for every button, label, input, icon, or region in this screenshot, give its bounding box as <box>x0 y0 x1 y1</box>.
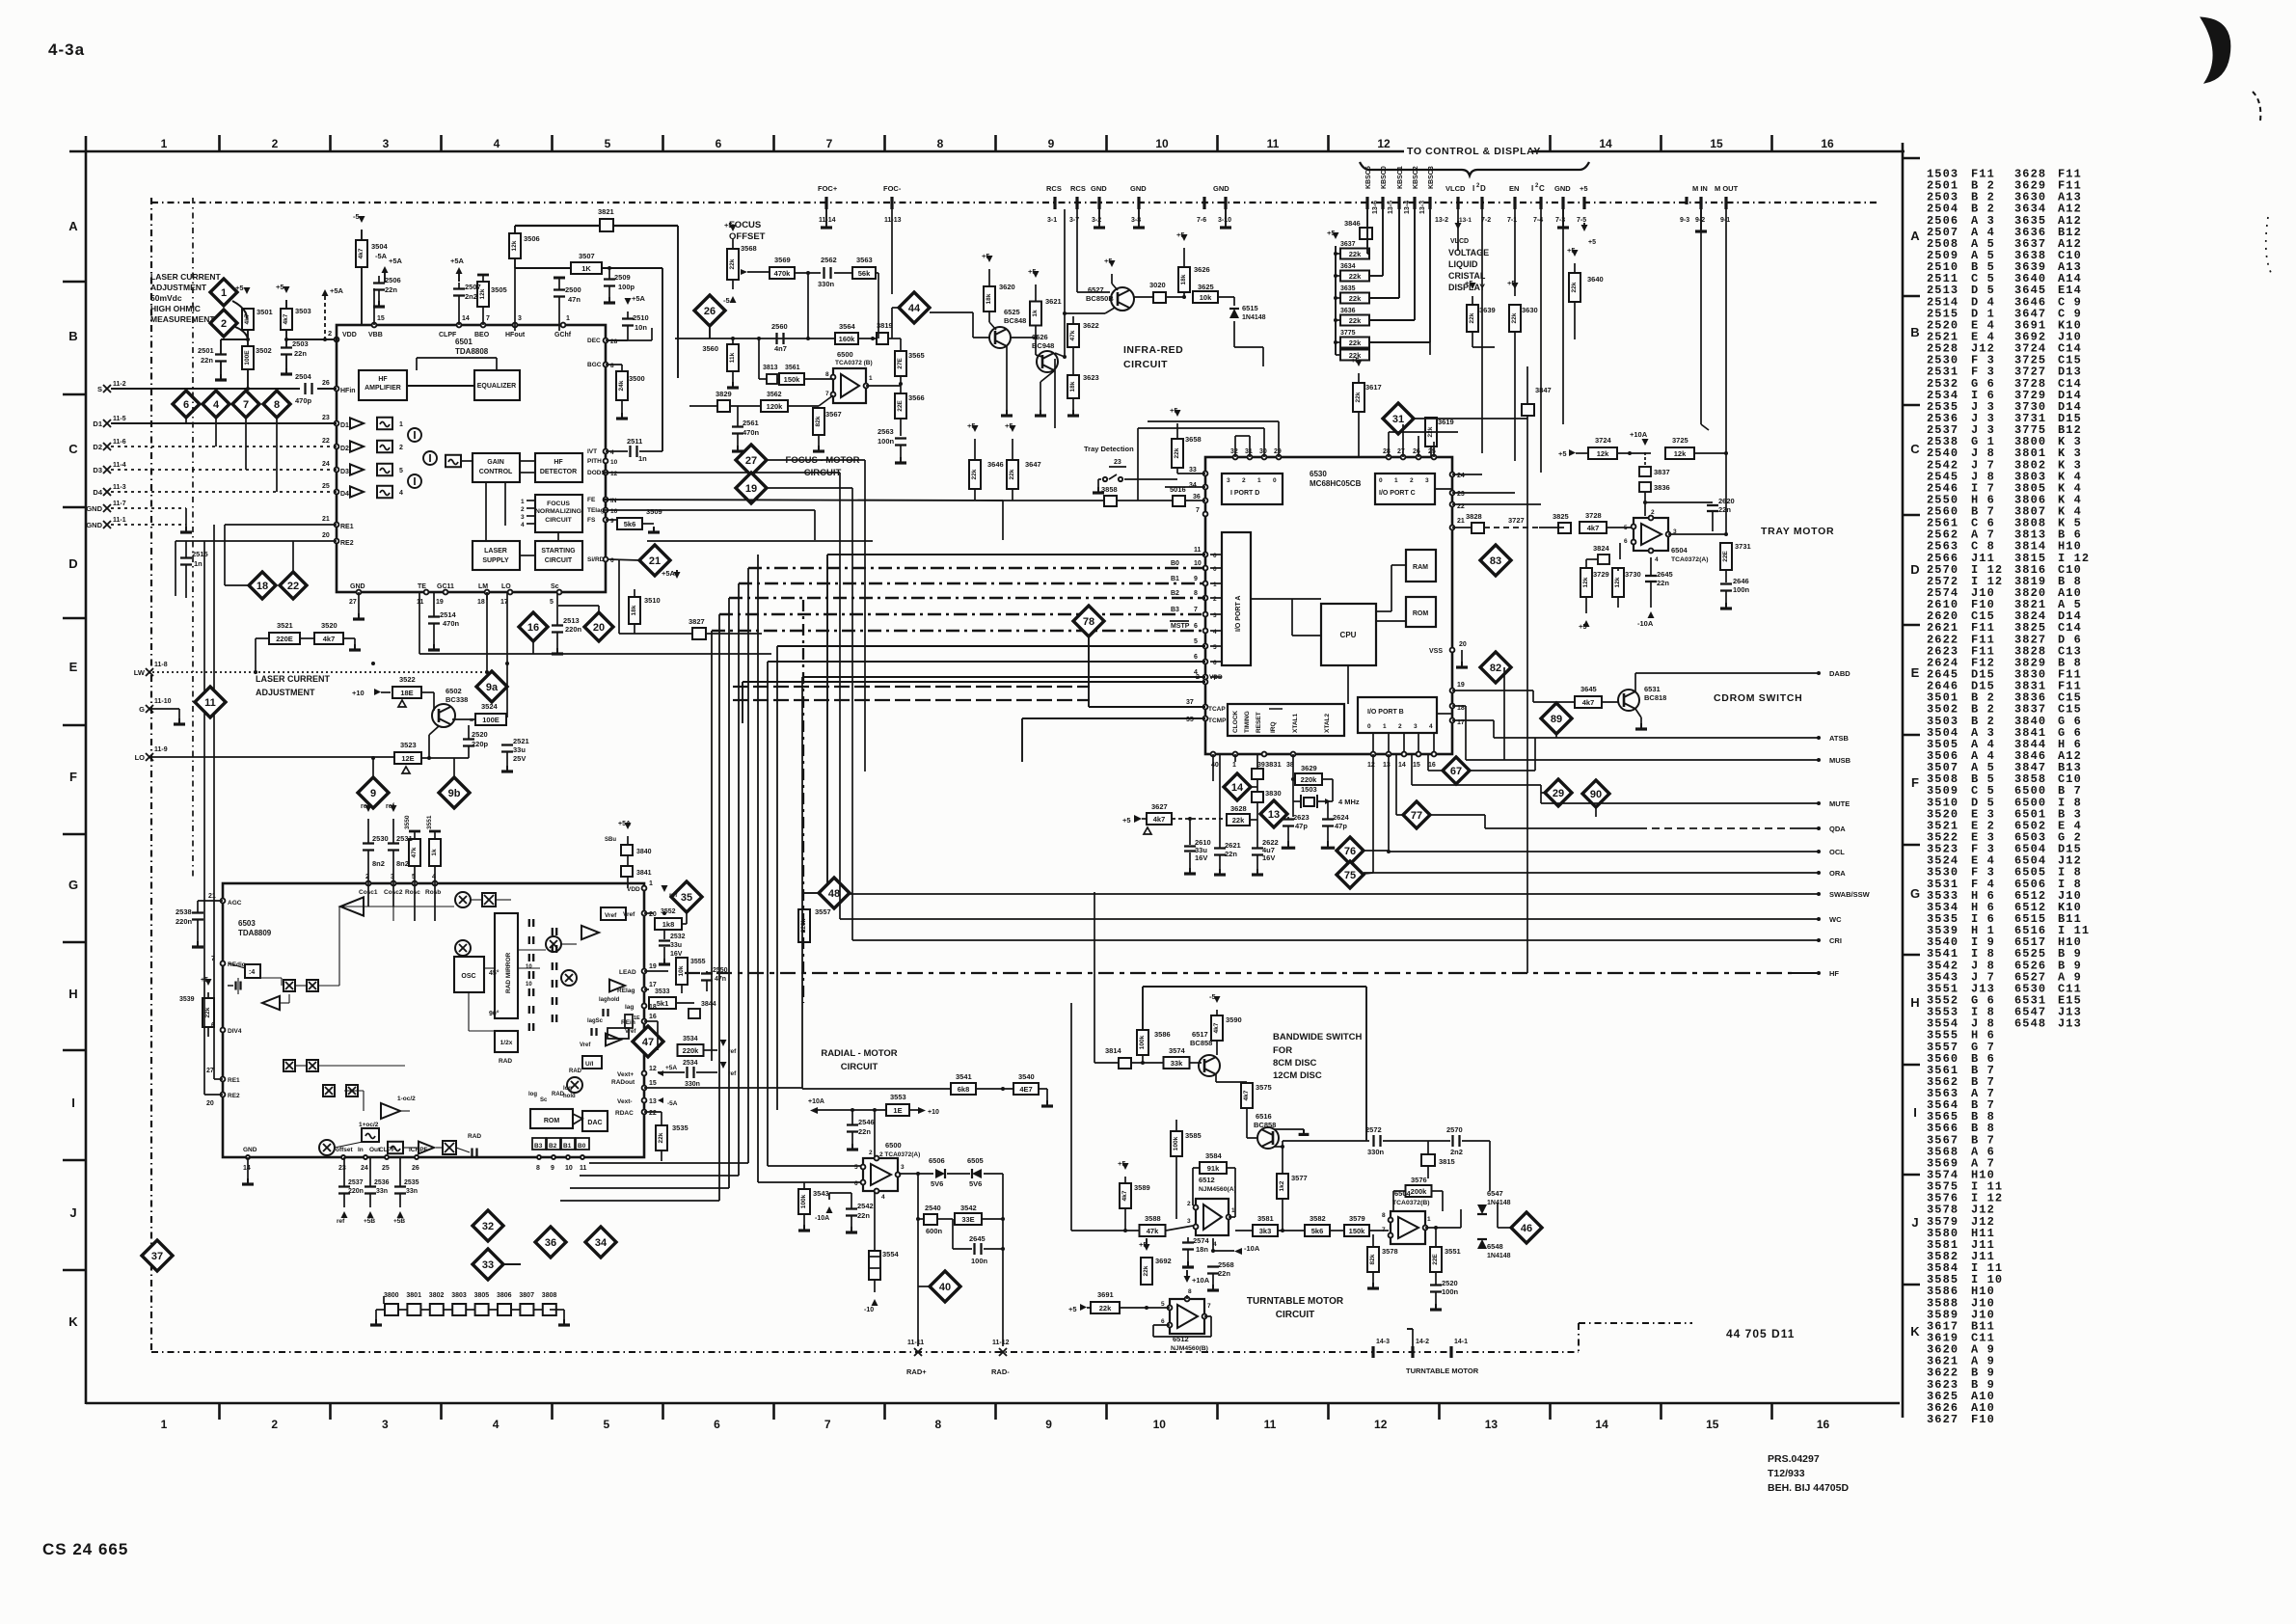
wire Vref to 3552 <box>644 912 654 914</box>
svg-text:31: 31 <box>1392 414 1404 425</box>
resistor ladder 3637/3634/3635/3636/3775 22k <box>1335 246 1337 355</box>
svg-text:6504: 6504 <box>1394 1189 1412 1198</box>
svg-text:22E: 22E <box>897 400 904 412</box>
svg-text:14: 14 <box>1599 137 1612 150</box>
svg-text:3807: 3807 <box>519 1292 534 1299</box>
triangle amp left <box>262 996 280 1010</box>
svg-text:ADJUSTMENT: ADJUSTMENT <box>150 283 207 292</box>
svg-text:100E: 100E <box>244 350 251 365</box>
svg-text:TCA0372 (B): TCA0372 (B) <box>835 360 873 366</box>
svg-text:2645: 2645 <box>1657 570 1673 579</box>
+5 arrow 3658 <box>1175 410 1181 417</box>
wire 6517 emitter <box>1215 1073 1217 1082</box>
svg-text:470n: 470n <box>443 619 460 628</box>
svg-text:GND: GND <box>1130 184 1147 193</box>
crystal 1503 <box>1304 798 1314 806</box>
resistor 3562 120k <box>761 400 788 412</box>
I PORT D box <box>1222 474 1283 504</box>
svg-text:2510: 2510 <box>633 313 649 322</box>
svg-text:20: 20 <box>649 911 657 918</box>
svg-text:33u: 33u <box>670 942 682 949</box>
svg-text:2501: 2501 <box>198 346 214 355</box>
dashed border x200 <box>192 198 194 880</box>
capacitor 2542 22n <box>846 1207 857 1209</box>
svg-text:VDD: VDD <box>627 886 640 893</box>
diode 6505 5V6 <box>972 1169 982 1178</box>
resistor 3542 33E <box>955 1213 982 1225</box>
svg-text:B0: B0 <box>578 1143 586 1150</box>
svg-text:G: G <box>1910 886 1920 901</box>
B3 B2 B1 B0 boxed labels <box>532 1138 546 1150</box>
svg-text:100k: 100k <box>1139 1035 1146 1049</box>
resistor 3585 100k <box>1171 1131 1182 1156</box>
svg-text:+5: +5 <box>967 421 976 430</box>
svg-text:3829: 3829 <box>716 390 732 398</box>
resistor 3646 22k <box>972 425 979 432</box>
test point diamond 2 <box>210 310 237 337</box>
svg-text:Tray Detection: Tray Detection <box>1084 445 1134 453</box>
resistor chain 3800-3808 <box>376 1309 384 1311</box>
resistor 3628 22k <box>1227 814 1250 826</box>
svg-text:3840: 3840 <box>636 849 652 855</box>
svg-text:600n: 600n <box>926 1227 943 1235</box>
keyboard scan stubs KBSC5-KBSC3 13-6..13-3 <box>1365 197 1368 209</box>
svg-text:10: 10 <box>526 982 532 988</box>
svg-text:160k: 160k <box>839 335 856 343</box>
svg-text:2: 2 <box>1213 596 1217 603</box>
svg-text:10: 10 <box>1194 560 1202 567</box>
capacitor 2521 33u 25V <box>501 744 513 745</box>
svg-text:3800: 3800 <box>384 1292 399 1299</box>
wire ORA <box>1364 872 1819 874</box>
svg-text:47p: 47p <box>1295 822 1308 830</box>
svg-text:OFFSET: OFFSET <box>729 231 766 242</box>
svg-text:B: B <box>68 329 77 343</box>
IC6501 right pins <box>604 338 608 343</box>
svg-text:8: 8 <box>825 371 829 378</box>
svg-text:BEH. BIJ 44705D: BEH. BIJ 44705D <box>1768 1482 1849 1494</box>
svg-text:7-5: 7-5 <box>1577 217 1586 224</box>
svg-text:BEO: BEO <box>474 332 490 338</box>
diamond 29 <box>1545 779 1572 806</box>
resistor 3588 47k <box>1140 1225 1166 1236</box>
svg-text:D2: D2 <box>93 443 102 451</box>
svg-text:PITH: PITH <box>587 458 602 465</box>
svg-text:4n7: 4n7 <box>774 344 787 353</box>
svg-text:1k2: 1k2 <box>1279 1180 1285 1191</box>
+5 arrow 3620 <box>986 256 993 262</box>
svg-text:RAD: RAD <box>468 1133 481 1140</box>
svg-text:22n: 22n <box>1218 1269 1230 1278</box>
svg-text:10n: 10n <box>635 323 647 332</box>
wire KBSC3 down to IR <box>1147 421 1148 428</box>
svg-text:22k: 22k <box>1349 338 1362 347</box>
svg-text:2532: 2532 <box>670 934 686 940</box>
tray detection switch <box>1103 477 1107 481</box>
wire pin15 to diamond29 <box>1411 754 1413 785</box>
current source circles <box>408 428 421 442</box>
svg-text:330n: 330n <box>818 280 835 288</box>
svg-text:4k7: 4k7 <box>1587 524 1600 532</box>
wire RAD+ vertical <box>917 1174 919 1346</box>
capacitor 2532 33u 16V <box>659 939 670 941</box>
diamond 31 <box>1383 403 1414 434</box>
svg-text:100n: 100n <box>1442 1287 1459 1296</box>
svg-text:3814: 3814 <box>1105 1046 1122 1055</box>
svg-text:DIV4: DIV4 <box>228 1028 242 1035</box>
svg-text:32: 32 <box>482 1221 494 1232</box>
svg-text:2535: 2535 <box>404 1179 419 1186</box>
svg-text:4: 4 <box>213 399 220 411</box>
svg-text:LO: LO <box>135 753 146 762</box>
capacitor 2535 33n <box>394 1185 406 1187</box>
KBSC vertical wires <box>1366 209 1368 254</box>
svg-text:D4: D4 <box>340 491 349 498</box>
svg-text:3629: 3629 <box>1301 764 1317 772</box>
diamond 6 <box>173 391 200 418</box>
svg-text:+5: +5 <box>1068 1305 1077 1313</box>
svg-text:ROM: ROM <box>544 1118 560 1124</box>
svg-text:3560: 3560 <box>702 344 718 353</box>
svg-text:4: 4 <box>1213 629 1217 636</box>
svg-text:19: 19 <box>1457 682 1465 689</box>
svg-text:D1: D1 <box>340 422 349 429</box>
+5A arrow 2510 <box>625 298 632 305</box>
resistor 3540 4E7 <box>1013 1083 1039 1095</box>
svg-text:-5A: -5A <box>667 1100 678 1107</box>
svg-text:2: 2 <box>1410 477 1414 484</box>
svg-text:DODS: DODS <box>587 470 606 476</box>
svg-text:B0: B0 <box>1171 560 1179 567</box>
svg-text:3: 3 <box>521 514 525 521</box>
svg-text:+5: +5 <box>1327 229 1336 237</box>
svg-text:1k: 1k <box>431 849 438 856</box>
svg-text:100k: 100k <box>1173 1136 1179 1150</box>
svg-text:6: 6 <box>1624 538 1628 545</box>
svg-text:330n: 330n <box>685 1081 700 1088</box>
capacitor 2540 600n <box>924 1214 937 1225</box>
svg-text:RAD MIRROR: RAD MIRROR <box>505 952 512 993</box>
test point diamond 2 wire <box>235 327 248 339</box>
svg-text:3628: 3628 <box>1230 804 1247 813</box>
wire DEC pin <box>606 339 652 341</box>
svg-text:3634: 3634 <box>1340 263 1356 270</box>
capacitor 2572 330n <box>1372 1135 1374 1147</box>
svg-text:KBSC5: KBSC5 <box>1365 166 1372 189</box>
opamp triangles small right <box>609 980 625 992</box>
svg-text:6502: 6502 <box>446 687 462 695</box>
resistor 3629 220k <box>1295 773 1322 785</box>
box 3020 <box>1153 292 1166 303</box>
svg-text:+5: +5 <box>1139 1240 1148 1249</box>
+10A arrow 3837 <box>1642 439 1649 446</box>
resistor 3521 220E <box>269 633 300 644</box>
svg-text:2511: 2511 <box>627 437 642 446</box>
capacitor 2520 220p <box>463 738 474 740</box>
capacitor 2500 47n <box>554 277 565 280</box>
svg-text:3621: 3621 <box>1045 297 1062 306</box>
capacitor 2506 22n <box>373 282 385 284</box>
svg-text:13-1: 13-1 <box>1459 217 1472 224</box>
svg-text:VSS: VSS <box>1429 648 1443 655</box>
svg-text:F10: F10 <box>1971 1413 1995 1426</box>
svg-text:SUPPLY: SUPPLY <box>482 557 509 564</box>
svg-text:11: 11 <box>580 1165 587 1172</box>
svg-text:J: J <box>69 1205 76 1220</box>
svg-text:RAD-: RAD- <box>991 1367 1010 1376</box>
svg-text:3586: 3586 <box>1154 1030 1171 1039</box>
svg-text:0: 0 <box>1213 553 1217 559</box>
svg-text:16: 16 <box>610 508 618 515</box>
svg-text:2: 2 <box>1398 723 1402 730</box>
wire PITH right <box>604 460 868 462</box>
svg-text:1: 1 <box>399 421 403 428</box>
svg-text:3577: 3577 <box>1291 1174 1308 1182</box>
svg-text:12: 12 <box>610 471 618 477</box>
svg-text:6548: 6548 <box>2014 1017 2046 1031</box>
svg-text:ROM: ROM <box>1413 610 1429 617</box>
svg-text:47n: 47n <box>568 295 581 304</box>
svg-text:22n: 22n <box>858 1127 871 1136</box>
svg-text:37: 37 <box>151 1251 163 1262</box>
svg-text:2537: 2537 <box>348 1179 364 1186</box>
box 3819 <box>877 333 888 344</box>
svg-text:33n: 33n <box>376 1188 388 1195</box>
svg-text:3507: 3507 <box>579 252 595 260</box>
wire 6502 emitter to LO line <box>429 726 439 735</box>
box 3836 <box>1639 482 1651 492</box>
svg-text:3813: 3813 <box>763 365 778 371</box>
capacitor 2531 8n2 <box>388 842 399 844</box>
svg-text:GC11: GC11 <box>437 583 454 590</box>
svg-text:18: 18 <box>257 581 268 592</box>
svg-text:7: 7 <box>211 956 215 962</box>
svg-text:ORA: ORA <box>1829 869 1846 878</box>
svg-text:2: 2 <box>1187 1201 1191 1207</box>
connector VLCD 13-2 13-1 <box>1456 197 1459 209</box>
resistor 3640 22k <box>1572 250 1579 257</box>
svg-text:3543: 3543 <box>813 1189 829 1198</box>
svg-text:5: 5 <box>1194 638 1198 645</box>
box 3830 <box>1252 792 1263 802</box>
svg-text:INFRA-RED: INFRA-RED <box>1123 344 1183 356</box>
svg-text:77: 77 <box>1411 810 1422 822</box>
svg-text:-5: -5 <box>353 212 360 221</box>
resistor 3524 100E <box>475 714 506 725</box>
diamond 89 <box>1541 703 1572 734</box>
svg-text:21: 21 <box>649 555 661 567</box>
svg-text:HF: HF <box>378 376 388 383</box>
bottom ruler ticks <box>218 1403 221 1420</box>
IC 6530 MC68HC05CB outline <box>1205 457 1452 754</box>
svg-text:E: E <box>1911 665 1920 680</box>
resistor 3728 4k7 <box>1580 522 1607 533</box>
diode 6515 1N4148 <box>1229 309 1239 318</box>
svg-text:26: 26 <box>704 306 716 317</box>
svg-text:VLCD: VLCD <box>1450 238 1469 245</box>
svg-text:6525: 6525 <box>1004 308 1020 316</box>
svg-text:GChf: GChf <box>554 332 572 338</box>
svg-text:TURNTABLE MOTOR: TURNTABLE MOTOR <box>1247 1296 1344 1307</box>
svg-text:22E: 22E <box>1432 1254 1439 1265</box>
svg-text:+5: +5 <box>1558 449 1567 458</box>
svg-text:=: = <box>470 717 473 724</box>
big triangle amp top <box>340 897 364 915</box>
svg-text:D3: D3 <box>93 466 102 474</box>
diamond 32 <box>473 1210 503 1241</box>
svg-text:13-6: 13-6 <box>1372 201 1379 214</box>
svg-text:3541: 3541 <box>956 1072 972 1081</box>
svg-text:3585: 3585 <box>1185 1131 1202 1140</box>
svg-text:28: 28 <box>610 338 618 345</box>
bus wire pin6b <box>768 661 1205 663</box>
svg-text:3: 3 <box>382 1418 389 1431</box>
resistor 3535 22k <box>656 1125 667 1150</box>
svg-text:3658: 3658 <box>1185 435 1202 444</box>
svg-text:3552: 3552 <box>661 908 676 915</box>
multiplier circle top <box>455 892 471 907</box>
svg-text:6527: 6527 <box>1088 285 1104 294</box>
multiplier circle bottom left <box>319 1140 335 1155</box>
diamond 21 <box>639 545 670 576</box>
svg-text:11: 11 <box>1264 1418 1277 1431</box>
svg-text:5: 5 <box>1624 525 1628 531</box>
svg-text:3692: 3692 <box>1155 1257 1172 1265</box>
-10A arrow radial <box>826 1206 833 1213</box>
svg-text:Vext+: Vext+ <box>617 1071 634 1078</box>
svg-text:2562: 2562 <box>821 256 837 264</box>
svg-text:lagSc: lagSc <box>587 1018 604 1024</box>
+5 arrow 3589 <box>1122 1163 1129 1170</box>
resistor 3541 6k8 <box>951 1083 976 1095</box>
svg-text:3: 3 <box>1213 612 1217 619</box>
svg-text:TCMP: TCMP <box>1208 717 1227 724</box>
svg-text:+10: +10 <box>928 1109 939 1116</box>
svg-text:10k: 10k <box>678 965 685 976</box>
svg-text:LO: LO <box>501 583 511 590</box>
laser supply box <box>473 541 520 570</box>
box 3831 <box>1252 769 1263 779</box>
svg-text:22k: 22k <box>971 469 978 479</box>
warning triangle 3627 <box>1144 827 1151 834</box>
capacitor 2536 33n <box>365 1185 376 1187</box>
svg-text:I/O PORT A: I/O PORT A <box>1235 596 1242 632</box>
junction dot diamond9 <box>371 662 375 665</box>
6503 internal wires <box>260 977 282 979</box>
svg-text:6516: 6516 <box>1256 1112 1272 1121</box>
wire VDD down <box>1212 754 1214 781</box>
svg-text:4: 4 <box>521 522 525 528</box>
connector D1 11-5 <box>103 420 111 427</box>
svg-text:3841: 3841 <box>636 870 652 877</box>
CPU right pins 24-21 <box>1450 473 1455 477</box>
box 3821 <box>600 219 613 231</box>
wire diamond19 to bus <box>767 487 852 489</box>
svg-text:12E: 12E <box>401 754 414 763</box>
transistor 6526 BC948 <box>1037 351 1058 372</box>
svg-text:CDROM SWITCH: CDROM SWITCH <box>1714 692 1802 704</box>
svg-text:4k7: 4k7 <box>1121 1190 1128 1201</box>
svg-text:RCS: RCS <box>1046 184 1062 193</box>
svg-text:6547: 6547 <box>1487 1189 1503 1198</box>
capacitor 2645 22n <box>1650 557 1652 575</box>
+5A arrow 2506 <box>382 266 389 273</box>
svg-text:12k: 12k <box>1582 577 1589 587</box>
ROM box <box>1406 597 1436 627</box>
svg-text:11: 11 <box>204 697 216 709</box>
port B bottom pins 12-16 <box>1371 752 1376 757</box>
svg-text:2504: 2504 <box>295 372 312 381</box>
resistor 3692 22k <box>1141 1258 1152 1285</box>
warning triangle 3523 <box>402 767 410 773</box>
svg-text:9: 9 <box>370 788 376 799</box>
svg-text:F: F <box>69 770 77 784</box>
svg-text:BC858: BC858 <box>1254 1121 1276 1129</box>
svg-text:14: 14 <box>1231 782 1244 794</box>
svg-text:CLPF: CLPF <box>439 332 457 338</box>
wire Si/RD to right <box>647 540 873 542</box>
+5 arrow 3503 <box>284 286 290 293</box>
svg-text:G: G <box>139 705 145 714</box>
svg-text:3553: 3553 <box>890 1093 906 1101</box>
tray motor left vertical x1560 <box>1503 667 1505 760</box>
svg-text:2561: 2561 <box>743 419 759 427</box>
svg-text:6k8: 6k8 <box>958 1085 970 1094</box>
svg-text:1: 1 <box>161 137 168 150</box>
resistor 3554 <box>869 1251 880 1280</box>
svg-text:3562: 3562 <box>767 392 782 398</box>
svg-text:3819: 3819 <box>877 321 893 330</box>
resistor 3557 220k <box>798 909 810 942</box>
svg-text:offset: offset <box>336 1147 354 1153</box>
wire LO pin down <box>506 592 508 717</box>
capacitor 2620 22n <box>1645 501 1713 503</box>
svg-text:34: 34 <box>595 1237 608 1249</box>
diamond 33 <box>473 1249 503 1280</box>
svg-text:3566: 3566 <box>908 393 925 402</box>
svg-text:6: 6 <box>714 1418 720 1431</box>
bus wire pin5 <box>777 645 1205 647</box>
svg-text:1: 1 <box>869 375 873 382</box>
svg-text:2520: 2520 <box>472 730 488 739</box>
svg-text:3802: 3802 <box>429 1292 445 1299</box>
svg-text:HFout: HFout <box>505 332 526 338</box>
capacitor 2645 100n radial <box>973 1243 975 1255</box>
resistor 3566 22E <box>895 393 906 419</box>
svg-text:8: 8 <box>937 137 944 150</box>
svg-text:9a: 9a <box>486 682 499 693</box>
resistor 3590 4k7 <box>1211 1015 1223 1041</box>
svg-text:56k: 56k <box>858 269 871 278</box>
+5 arrow at R3501 <box>244 287 251 294</box>
svg-text:+5: +5 <box>1028 267 1037 276</box>
resistor 3504 4k7 <box>356 240 367 267</box>
svg-text:23: 23 <box>1114 459 1121 466</box>
svg-text:CIRCUIT: CIRCUIT <box>545 557 573 564</box>
scan artifact top right corner <box>2201 17 2230 83</box>
svg-text:ref: ref <box>337 1218 345 1225</box>
svg-text:3824: 3824 <box>1593 544 1610 553</box>
svg-text:22n: 22n <box>385 285 397 294</box>
svg-text:2646: 2646 <box>1733 577 1749 585</box>
svg-text:3590: 3590 <box>1226 1015 1242 1024</box>
svg-text:+5: +5 <box>1588 239 1596 246</box>
svg-text:CPU: CPU <box>1340 631 1357 639</box>
diamond 9b <box>439 777 470 808</box>
svg-text:22k: 22k <box>1174 447 1180 458</box>
diamond 9a <box>476 671 507 702</box>
resistor 3639 22k <box>1467 305 1478 332</box>
